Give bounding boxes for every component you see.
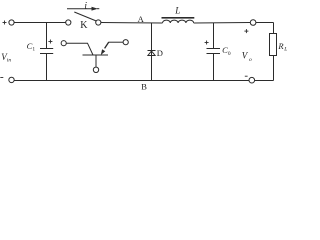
svg-text:i: i: [84, 1, 87, 11]
svg-text:L: L: [174, 5, 180, 15]
svg-text:in: in: [7, 57, 12, 63]
svg-text:A: A: [138, 14, 145, 24]
svg-text:K: K: [80, 20, 88, 31]
svg-text:B: B: [141, 82, 147, 92]
svg-text:o: o: [249, 57, 252, 63]
svg-text:D: D: [157, 48, 163, 58]
svg-text:L: L: [283, 46, 287, 52]
svg-text:1: 1: [32, 46, 35, 52]
svg-text:0: 0: [228, 51, 231, 57]
svg-text:V: V: [242, 51, 249, 61]
